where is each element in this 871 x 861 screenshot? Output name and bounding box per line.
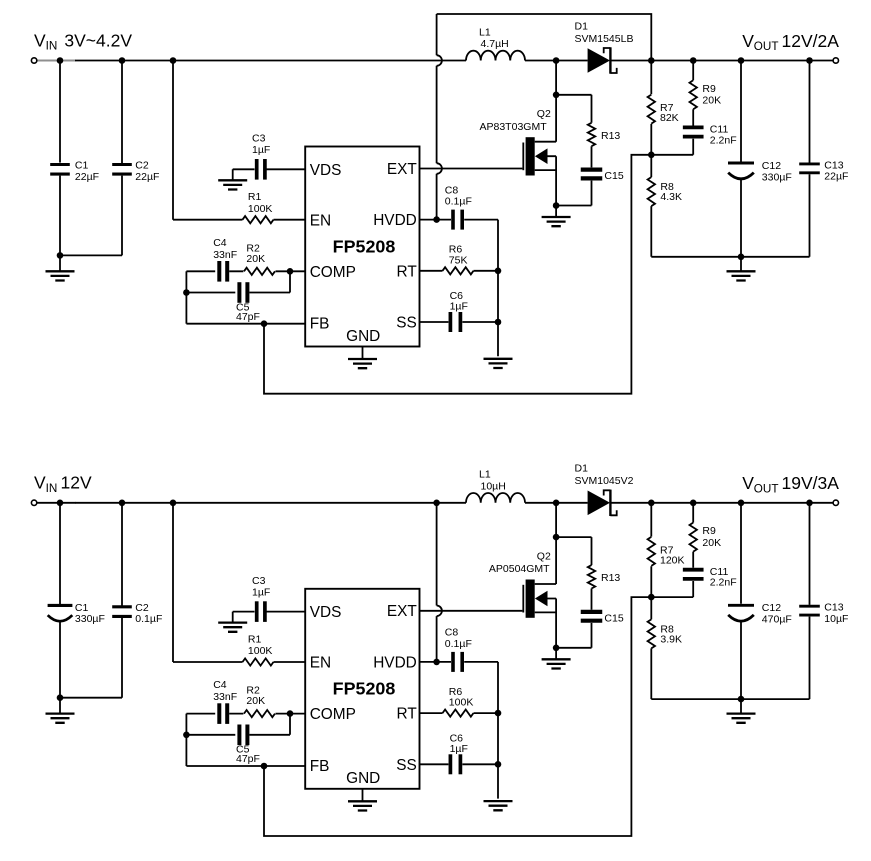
svg-text:D1: D1 [575, 20, 589, 32]
svg-text:19V/3A: 19V/3A [782, 473, 840, 493]
svg-text:100K: 100K [248, 645, 273, 657]
svg-text:3V~4.2V: 3V~4.2V [64, 30, 132, 50]
svg-text:R9: R9 [702, 83, 716, 95]
svg-text:330µF: 330µF [762, 171, 792, 183]
svg-text:GND: GND [346, 770, 380, 787]
svg-text:2.2nF: 2.2nF [710, 134, 737, 146]
svg-text:EN: EN [310, 212, 331, 229]
svg-text:FP5208: FP5208 [333, 679, 396, 699]
svg-text:R1: R1 [248, 191, 262, 203]
svg-text:33nF: 33nF [213, 249, 237, 261]
svg-text:RT: RT [397, 706, 418, 723]
svg-text:10µH: 10µH [481, 480, 506, 492]
svg-text:EN: EN [310, 655, 331, 672]
svg-text:C4: C4 [213, 679, 227, 691]
svg-text:RT: RT [397, 263, 418, 280]
svg-text:C3: C3 [252, 133, 266, 145]
svg-text:C12: C12 [762, 160, 781, 172]
svg-text:VDS: VDS [310, 604, 342, 621]
svg-text:C1: C1 [75, 602, 89, 614]
svg-text:R13: R13 [601, 130, 620, 142]
svg-text:3.9K: 3.9K [660, 634, 682, 646]
svg-text:SS: SS [396, 315, 417, 332]
svg-text:Q2: Q2 [537, 108, 551, 120]
svg-text:12V: 12V [61, 473, 92, 493]
svg-text:12V/2A: 12V/2A [782, 31, 840, 51]
svg-text:IN: IN [46, 40, 58, 53]
svg-text:470µF: 470µF [762, 614, 792, 626]
svg-text:0.1µF: 0.1µF [135, 613, 162, 625]
svg-text:C13: C13 [824, 159, 843, 171]
svg-text:4.7µH: 4.7µH [481, 38, 509, 50]
svg-text:20K: 20K [246, 695, 265, 707]
svg-text:C15: C15 [604, 170, 623, 182]
svg-text:C3: C3 [252, 575, 266, 587]
svg-text:HVDD: HVDD [373, 654, 417, 671]
svg-text:C12: C12 [762, 602, 781, 614]
svg-text:L1: L1 [479, 26, 491, 38]
svg-text:VDS: VDS [310, 162, 342, 179]
svg-text:OUT: OUT [754, 482, 779, 495]
svg-text:IN: IN [46, 482, 58, 495]
svg-text:GND: GND [346, 328, 380, 345]
svg-text:FP5208: FP5208 [333, 236, 396, 256]
svg-text:1µF: 1µF [450, 301, 468, 313]
svg-text:10µF: 10µF [824, 613, 848, 625]
svg-text:C4: C4 [213, 237, 227, 249]
svg-text:22µF: 22µF [824, 171, 848, 183]
svg-text:AP0504GMT: AP0504GMT [489, 563, 550, 575]
svg-text:100K: 100K [248, 203, 273, 215]
svg-text:22µF: 22µF [135, 171, 159, 183]
svg-text:D1: D1 [575, 463, 589, 475]
svg-text:20K: 20K [702, 95, 721, 107]
svg-text:C2: C2 [135, 160, 149, 172]
svg-text:C8: C8 [445, 184, 459, 196]
svg-text:AP83T03GMT: AP83T03GMT [480, 121, 548, 133]
svg-text:47pF: 47pF [236, 311, 260, 323]
svg-text:75K: 75K [449, 254, 468, 266]
svg-text:R9: R9 [702, 525, 716, 537]
svg-text:1µF: 1µF [252, 586, 270, 598]
svg-text:20K: 20K [702, 537, 721, 549]
svg-text:100K: 100K [449, 697, 474, 709]
svg-text:FB: FB [310, 316, 330, 333]
svg-text:2.2nF: 2.2nF [710, 577, 737, 589]
svg-text:EXT: EXT [387, 603, 418, 620]
svg-text:20K: 20K [246, 253, 265, 265]
svg-text:OUT: OUT [754, 40, 779, 53]
svg-text:V: V [742, 31, 754, 51]
svg-text:C13: C13 [824, 602, 843, 614]
svg-text:C1: C1 [75, 160, 89, 172]
svg-text:0.1µF: 0.1µF [445, 196, 472, 208]
svg-text:EXT: EXT [387, 161, 418, 178]
svg-text:L1: L1 [479, 469, 491, 481]
svg-text:0.1µF: 0.1µF [445, 638, 472, 650]
svg-text:1µF: 1µF [450, 743, 468, 755]
svg-text:HVDD: HVDD [373, 212, 417, 229]
svg-text:SVM1045V2: SVM1045V2 [575, 475, 634, 487]
svg-text:33nF: 33nF [213, 691, 237, 703]
svg-text:C8: C8 [445, 627, 459, 639]
svg-text:V: V [34, 473, 46, 493]
svg-text:82K: 82K [660, 112, 679, 124]
svg-text:C15: C15 [604, 612, 623, 624]
svg-text:R13: R13 [601, 572, 620, 584]
svg-text:SS: SS [396, 757, 417, 774]
svg-text:120K: 120K [660, 555, 685, 567]
svg-text:V: V [742, 473, 754, 493]
svg-text:4.3K: 4.3K [660, 191, 682, 203]
svg-text:330µF: 330µF [75, 613, 105, 625]
svg-text:22µF: 22µF [75, 171, 99, 183]
svg-text:COMP: COMP [310, 264, 356, 281]
svg-text:V: V [34, 30, 46, 50]
svg-text:C2: C2 [135, 602, 149, 614]
svg-text:SVM1545LB: SVM1545LB [575, 33, 634, 45]
svg-text:R1: R1 [248, 634, 262, 646]
svg-text:COMP: COMP [310, 706, 356, 723]
svg-text:Q2: Q2 [537, 551, 551, 563]
svg-text:47pF: 47pF [236, 753, 260, 765]
svg-text:1µF: 1µF [252, 144, 270, 156]
svg-text:FB: FB [310, 758, 330, 775]
